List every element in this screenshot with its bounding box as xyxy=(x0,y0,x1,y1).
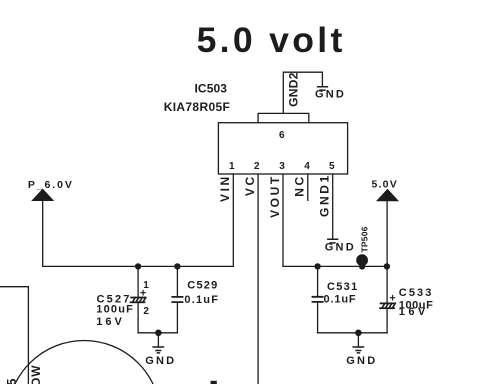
svg-text:KIA78R05F: KIA78R05F xyxy=(164,100,231,114)
junction dot C527/rail xyxy=(135,263,141,269)
wire 5.0V stem xyxy=(386,201,388,267)
svg-text:C529: C529 xyxy=(187,280,218,292)
wire left bottom rail xyxy=(138,332,177,334)
svg-text:0.1uF: 0.1uF xyxy=(184,294,219,306)
svg-text:P_6.0V: P_6.0V xyxy=(28,179,74,191)
svg-text:5: 5 xyxy=(329,161,335,172)
large component circle arc xyxy=(8,341,161,384)
wire P_6.0V stem and left rail xyxy=(43,201,234,267)
capacitor C529 symbol xyxy=(172,297,182,302)
C527 plus sign xyxy=(141,291,145,295)
svg-text:45: 45 xyxy=(4,379,19,384)
ground symbol pin5 GND1 xyxy=(328,239,338,243)
svg-text:GND1: GND1 xyxy=(318,173,332,217)
svg-text:3: 3 xyxy=(279,161,285,172)
test point TP506 xyxy=(356,254,368,266)
wire pin1 VIN down xyxy=(232,174,234,266)
power flag P_6.0V arrow xyxy=(32,189,53,200)
svg-text:16V: 16V xyxy=(399,306,429,318)
capacitor C527 polarized symbol xyxy=(131,298,146,303)
svg-text:NC: NC xyxy=(293,174,307,197)
ground symbol top right xyxy=(318,87,328,90)
wire right rail VOUT to 5.0V xyxy=(283,265,387,267)
svg-text:GND: GND xyxy=(325,242,356,254)
junction dot C531/rail xyxy=(314,263,320,269)
power flag 5.0V arrow xyxy=(377,190,398,201)
wire GND2 from tab to ground xyxy=(283,72,322,113)
svg-text:IC503: IC503 xyxy=(195,82,228,96)
junction dot 5.0V/C533 rail xyxy=(384,263,390,269)
partial text mark bottom center xyxy=(211,381,217,384)
svg-text:16V: 16V xyxy=(96,316,125,328)
svg-text:C533: C533 xyxy=(399,287,434,299)
svg-text:VC: VC xyxy=(243,174,257,196)
wire pin3 VOUT down xyxy=(282,174,284,266)
junction dot right gnd tee xyxy=(355,330,362,337)
wire C531 top stub xyxy=(317,266,319,296)
capacitor C533 polarized symbol xyxy=(380,303,395,308)
wire C529 bottom stub xyxy=(176,302,178,333)
svg-text:GND2: GND2 xyxy=(287,72,301,107)
wire pin5 GND1 down xyxy=(332,174,334,239)
wire C529 top stub xyxy=(176,266,178,297)
wire pin4 NC stub xyxy=(307,174,309,200)
svg-text:2: 2 xyxy=(254,161,260,172)
svg-text:2: 2 xyxy=(143,306,149,317)
ground symbol left bottom xyxy=(153,347,163,353)
wire pin2 VC down to bottom edge xyxy=(257,174,259,384)
junction dot TP506/rail xyxy=(359,263,365,269)
svg-text:100uF: 100uF xyxy=(96,304,134,316)
wire C533 bottom stub xyxy=(386,308,388,333)
op-amp/regulator IC503 body xyxy=(218,123,347,174)
junction dot left gnd tee xyxy=(155,330,162,337)
svg-text:VOUT: VOUT xyxy=(268,174,282,218)
svg-text:GND: GND xyxy=(346,355,377,367)
wire right bottom rail xyxy=(318,332,388,334)
ground symbol right bottom xyxy=(353,347,363,353)
svg-text:4: 4 xyxy=(304,161,310,172)
svg-text:5.0 volt: 5.0 volt xyxy=(197,20,346,60)
svg-text:5.0V: 5.0V xyxy=(372,179,398,191)
wire C531 bottom stub xyxy=(317,302,319,333)
svg-text:OW: OW xyxy=(29,365,43,384)
svg-text:C531: C531 xyxy=(327,281,359,293)
svg-text:TP506: TP506 xyxy=(360,226,370,252)
wire C527 top stub xyxy=(137,266,139,297)
capacitor C531 symbol xyxy=(313,297,323,302)
wire C527 bottom stub xyxy=(137,302,139,333)
IC503 tab (pin 6) xyxy=(258,113,309,122)
C533 plus sign xyxy=(390,296,394,300)
svg-text:GND: GND xyxy=(315,89,346,101)
wire C533 top stub xyxy=(386,266,388,303)
wire right gnd stub xyxy=(357,333,359,347)
svg-text:VIN: VIN xyxy=(218,174,232,202)
junction dot C529/rail xyxy=(174,263,180,269)
svg-text:GND: GND xyxy=(145,355,176,367)
svg-text:0.1uF: 0.1uF xyxy=(324,294,357,306)
partial component box bottom left xyxy=(0,287,28,384)
svg-text:1: 1 xyxy=(229,161,235,172)
svg-text:1: 1 xyxy=(143,280,149,291)
svg-text:6: 6 xyxy=(279,130,285,141)
wire left gnd stub xyxy=(157,333,159,347)
